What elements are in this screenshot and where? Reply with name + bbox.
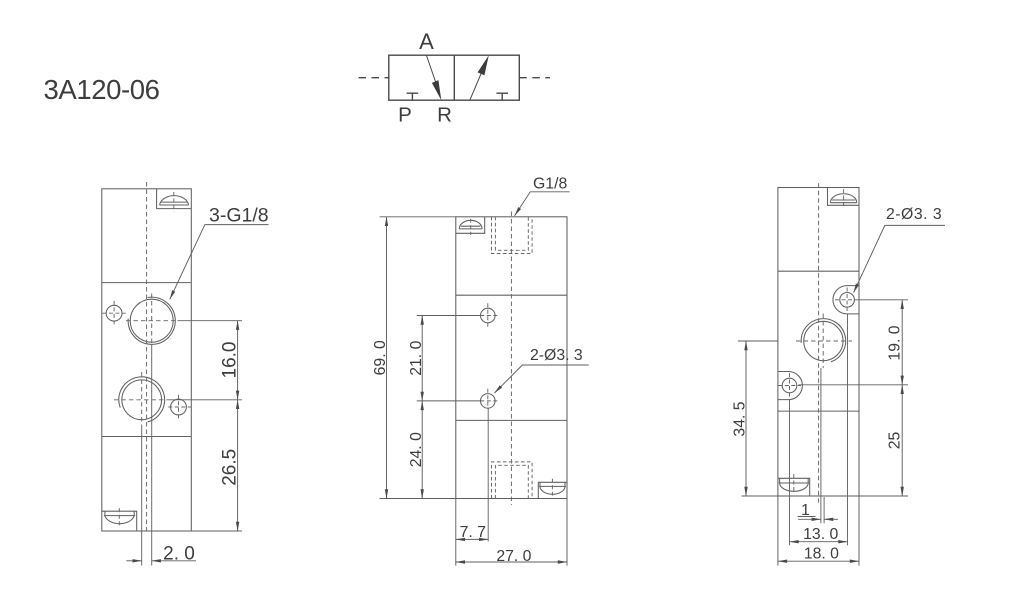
dimension 25 line: [901, 385, 903, 496]
dimension 19.0 line: [901, 300, 903, 385]
right view port centerline dashed: [822, 314, 824, 369]
dimension 16.0 line: [237, 321, 239, 400]
left view port lower thread arc: [119, 377, 165, 422]
right view bottom dome (inverted): [780, 483, 809, 491]
leader G1/8: [515, 192, 570, 216]
extension body right edge down: [566, 499, 568, 566]
middle view hole lower: [481, 394, 496, 409]
left view upper port centerline dashed: [151, 294, 153, 345]
svg-text:2. 0: 2. 0: [163, 543, 195, 564]
middle view lower hole crosshair: [487, 389, 489, 409]
dimension 1 text underline: [798, 516, 816, 518]
extension upper hole right: [859, 299, 908, 301]
right view bottom dome centerline: [793, 474, 795, 494]
svg-text:7. 7: 7. 7: [460, 524, 486, 541]
left view top dome centerline: [173, 192, 175, 212]
extension body bottom left: [742, 495, 778, 497]
extension body left edge down: [777, 496, 779, 566]
right view top dome: [830, 194, 856, 203]
right view upper hole: [840, 293, 855, 308]
dimension 26.5 line: [237, 400, 239, 531]
right view port crosshair horizontal: [796, 340, 852, 342]
middle view bottom notch: [538, 482, 567, 498]
extension lower hole left: [417, 400, 481, 402]
svg-text:2-Ø3. 3: 2-Ø3. 3: [886, 206, 942, 223]
leader 2-O3.3 middle: [495, 365, 589, 393]
extension upper hole left: [417, 315, 481, 317]
leader 3-G1/8: [170, 225, 269, 300]
left view top dome: [160, 196, 189, 205]
left view upper port crosshair horizontal: [126, 320, 178, 322]
right view upper hole centerline solid extension: [847, 314, 849, 545]
right view top notch: [828, 188, 860, 206]
dimension 18.0 line: [778, 560, 859, 562]
middle view hole upper: [481, 308, 496, 323]
dimension 21.0 line: [421, 316, 423, 401]
svg-text:34. 5: 34. 5: [731, 401, 748, 436]
extension body left edge down: [455, 499, 457, 566]
middle view bottom dome centerline: [551, 479, 553, 496]
svg-text:G1/8: G1/8: [533, 175, 567, 192]
right view port centerline solid extension: [820, 368, 822, 523]
middle view division line upper: [456, 294, 567, 296]
blocked port T left (P): [411, 93, 413, 100]
right view port inner circle: [804, 321, 843, 360]
right view top dome centerline: [843, 189, 845, 208]
left view bottom notch: [102, 511, 137, 531]
dimension 1 left arrow: [798, 518, 821, 520]
right view lower hole centerline solid extension: [789, 400, 791, 546]
middle view bottom dome (inverted): [540, 486, 565, 494]
middle view top dome centerline: [470, 219, 472, 235]
left view lower-right hole crosshair: [168, 406, 191, 408]
extension body bottom right: [859, 495, 908, 497]
svg-text:69. 0: 69. 0: [372, 340, 389, 375]
dimension 2.0 left arrow: [126, 560, 141, 562]
right view lower hole boss: [778, 372, 803, 400]
blocked port T right: [501, 93, 503, 100]
left view lower port centerline solid extension: [141, 427, 143, 566]
svg-text:P: P: [398, 104, 412, 127]
left view bottom dome (inverted): [105, 516, 134, 524]
svg-text:24. 0: 24. 0: [408, 432, 425, 467]
right view bottom notch: [778, 478, 810, 496]
dimension 13.0 line: [790, 541, 848, 543]
right view upper hole crosshair: [835, 299, 859, 301]
dimension 69.0 line: [386, 217, 388, 499]
left view body outline: [102, 189, 192, 531]
left view lower port crosshair horizontal: [114, 399, 168, 401]
dimension 24.0 line: [421, 401, 423, 499]
left view upper hole crosshair: [103, 312, 126, 314]
right view lower hole: [782, 378, 797, 393]
left view division line upper: [102, 282, 192, 284]
middle view body outline: [456, 217, 567, 499]
flow arrow A to R: [426, 55, 437, 86]
svg-text:1: 1: [801, 502, 810, 519]
middle view centerline dashed: [510, 212, 512, 505]
left view body centerline dashed: [146, 182, 148, 531]
middle view hidden G1/8 hole top inner: [495, 217, 528, 251]
right view division line upper: [778, 270, 859, 272]
svg-text:A: A: [419, 29, 434, 54]
valve symbol right dashed lead: [519, 77, 550, 79]
left view port upper inner circle: [130, 299, 173, 342]
extension line upper port center: [178, 320, 243, 322]
extension body top left: [380, 216, 456, 218]
left view mount hole upper-left: [106, 305, 122, 321]
extension lower hole center across body: [799, 384, 909, 386]
svg-text:16.0: 16.0: [219, 342, 240, 379]
middle view top notch: [456, 217, 485, 234]
middle view hidden G1/8 hole top outer: [492, 217, 533, 254]
svg-text:18. 0: 18. 0: [804, 545, 839, 562]
extension port center left: [738, 340, 778, 342]
leader 2-O3.3 right: [854, 225, 945, 292]
dimension 27.0 line: [456, 561, 567, 563]
dimension 34.5 line: [745, 341, 747, 496]
valve symbol left dashed lead: [359, 77, 389, 79]
svg-text:R: R: [437, 104, 452, 127]
valve symbol divider: [453, 55, 455, 100]
dimension 7.7 line: [456, 538, 488, 540]
valve symbol body: [389, 55, 520, 100]
middle view upper hole crosshair: [487, 303, 489, 327]
left view division line lower: [102, 436, 192, 438]
svg-text:13. 0: 13. 0: [803, 526, 838, 543]
svg-text:3-G1/8: 3-G1/8: [209, 205, 269, 227]
middle view division line lower: [456, 419, 567, 421]
right view centerline dashed: [818, 183, 820, 503]
middle view lower hole centerline solid extension: [487, 408, 489, 541]
right view body outline: [778, 188, 859, 497]
svg-text:26.5: 26.5: [219, 449, 240, 486]
extension body right edge down: [858, 496, 860, 566]
middle view hidden hole bottom outer: [492, 462, 533, 499]
left view mount hole lower-right: [171, 399, 187, 415]
left view port lower inner circle: [122, 380, 162, 420]
middle view hidden hole bottom inner: [495, 465, 528, 498]
left view port upper thread arc: [128, 297, 175, 344]
right view lower hole crosshair: [778, 385, 801, 387]
dimension 1 right arrow: [824, 518, 838, 520]
svg-text:25: 25: [887, 432, 904, 450]
svg-text:19. 0: 19. 0: [887, 325, 904, 360]
left view bottom dome centerline: [118, 508, 120, 527]
left view upper port centerline solid extension: [151, 345, 153, 566]
right view second line of 1mm pair: [823, 497, 825, 523]
extension line lower port center: [168, 399, 243, 401]
svg-text:27. 0: 27. 0: [496, 548, 531, 565]
right view division line lower: [778, 410, 859, 412]
flow arrow right cell: [470, 72, 482, 101]
extension body bottom right: [191, 530, 242, 532]
extension body bottom left: [380, 498, 456, 500]
svg-text:2-Ø3. 3: 2-Ø3. 3: [530, 347, 583, 364]
right view port thread arc: [801, 319, 846, 362]
left view top notch: [157, 189, 192, 209]
svg-text:21. 0: 21. 0: [408, 340, 425, 375]
left view lower port centerline dashed: [141, 372, 143, 427]
right view upper hole boss: [833, 286, 859, 314]
middle view top dome: [459, 220, 482, 229]
dimension 2.0 right arrow: [152, 560, 196, 562]
svg-text:3A120-06: 3A120-06: [44, 74, 160, 105]
